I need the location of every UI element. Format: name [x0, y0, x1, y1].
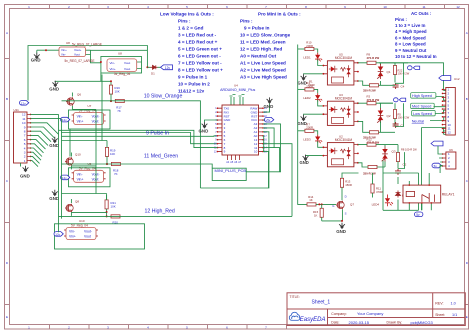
resistor R2 330-R 2W — [358, 81, 395, 92]
svg-text:9 = Pulse In: 9 = Pulse In — [244, 26, 270, 31]
wire U4 right pins to right section — [59, 124, 293, 216]
resistor R15 1K — [313, 204, 343, 222]
svg-text:6 = Med Speed: 6 = Med Speed — [395, 35, 426, 40]
svg-text:10K: 10K — [110, 152, 115, 156]
resistor R10 200R — [298, 41, 318, 53]
svg-text:1.0: 1.0 — [451, 302, 456, 306]
optocoupler U2 MOC3041M — [323, 135, 359, 167]
triac Q2 — [377, 108, 391, 123]
MCU U4 ARDUINO_MINI_Plus — [214, 84, 267, 174]
resistor R1 — [308, 80, 315, 88]
svg-text:Q7: Q7 — [350, 202, 354, 206]
diode D1 — [147, 65, 172, 75]
svg-text:Q8: Q8 — [75, 199, 79, 203]
svg-text:7K: 7K — [114, 172, 118, 176]
resistor R21 — [105, 195, 116, 217]
svg-text:1K: 1K — [314, 213, 318, 217]
svg-text:10K: 10K — [115, 89, 120, 93]
net flag near U6 — [432, 163, 443, 168]
ground under Q7 — [336, 223, 346, 234]
resistor R13 150R — [340, 178, 351, 200]
LED LED3 — [303, 135, 323, 148]
svg-text:150R: 150R — [345, 183, 352, 187]
ground MOC row3 — [300, 155, 324, 165]
svg-text:Vin-: Vin- — [61, 52, 66, 56]
ground MOC row1 — [298, 74, 324, 86]
svg-text:A: A — [6, 31, 8, 35]
ground GND row2 — [49, 137, 59, 148]
resistor R11 470R — [371, 173, 383, 198]
resistor R7 200R — [298, 122, 318, 134]
note text block: Pro Mini In & Outs — [240, 12, 301, 80]
resistor R9 470-R 2W — [358, 53, 393, 65]
svg-text:LED2: LED2 — [303, 96, 311, 100]
svg-text:Pins :: Pins : — [240, 19, 253, 24]
svg-text:LED1: LED1 — [303, 56, 311, 60]
svg-text:10 Slow_Orange: 10 Slow_Orange — [144, 94, 183, 100]
svg-text:10 = Pulse In 2: 10 = Pulse In 2 — [178, 82, 210, 87]
svg-text:C4: C4 — [401, 85, 405, 89]
svg-text:TITLE:: TITLE: — [290, 295, 300, 299]
svg-text:5v_REG_07_LARGE: 5v_REG_07_LARGE — [72, 43, 102, 47]
ground GND2 — [49, 81, 59, 92]
net port Low Speed — [412, 111, 436, 116]
svg-text:Vin-: Vin- — [110, 61, 115, 65]
capacitor C1 — [393, 122, 405, 128]
wire top loop A — [28, 46, 147, 101]
wire net 11 Med_Green — [62, 164, 213, 168]
svg-text:330-R 2W: 330-R 2W — [363, 88, 376, 92]
svg-text:1K: 1K — [309, 198, 313, 202]
svg-text:E: E — [466, 315, 468, 319]
connector U11 — [14, 108, 32, 163]
svg-text:High Speed: High Speed — [412, 94, 432, 98]
regulator U5 — [61, 162, 111, 187]
resistor R8 100-R 2W — [396, 145, 417, 169]
capacitor C2 — [395, 163, 407, 175]
svg-text:GND: GND — [31, 58, 41, 63]
svg-text:12 = LED High_Red: 12 = LED High_Red — [240, 47, 282, 52]
title block — [287, 293, 465, 326]
svg-text:12v: 12v — [165, 66, 171, 70]
svg-text:Pins :: Pins : — [395, 17, 407, 22]
net flag 12v above U11 — [20, 101, 29, 106]
wire right column to U12 — [393, 63, 446, 211]
svg-text:REV:: REV: — [435, 302, 443, 306]
regulator U8 — [59, 41, 102, 63]
svg-text:Low Voltage Ins & Outs :: Low Voltage Ins & Outs : — [160, 12, 214, 17]
svg-text:Pro Mini In & Outs :: Pro Mini In & Outs : — [258, 12, 301, 17]
svg-text:11 Med_Green: 11 Med_Green — [144, 153, 178, 159]
svg-text:ARDUINO_MINI_Plus: ARDUINO_MINI_Plus — [220, 88, 255, 92]
svg-text:6 = LED Green out -: 6 = LED Green out - — [178, 54, 221, 59]
svg-text:MINI_PLUS_PCB: MINI_PLUS_PCB — [215, 168, 247, 173]
relay RELAY1 — [403, 184, 455, 203]
LED LED1 — [303, 53, 323, 66]
svg-text:GND: GND — [336, 229, 346, 234]
svg-text:9 Pulse In: 9 Pulse In — [146, 130, 169, 136]
svg-text:Company:: Company: — [331, 312, 347, 316]
resistor R5 100-R 2W — [393, 103, 409, 126]
svg-text:3 = LED Red out -: 3 = LED Red out - — [178, 33, 217, 38]
optocoupler U3b MOC3041M — [323, 93, 359, 126]
svg-text:Your Company: Your Company — [357, 311, 383, 316]
svg-text:10 to 12 = Neutral In: 10 to 12 = Neutral In — [395, 54, 437, 59]
svg-text:GND: GND — [49, 196, 59, 201]
svg-text:S: S — [345, 211, 347, 215]
ground MOC row2 — [298, 114, 324, 126]
svg-text:GND: GND — [199, 129, 209, 134]
net port Med Speed — [411, 103, 435, 108]
wire U6 links — [438, 146, 443, 173]
ground below U11 — [20, 163, 30, 179]
svg-text:pcbjMMCG3: pcbjMMCG3 — [411, 320, 434, 325]
svg-text:10K: 10K — [111, 204, 116, 208]
wire box around MINI_PLUS_PCB — [212, 168, 246, 180]
svg-text:B: B — [466, 97, 468, 101]
svg-text:Q1: Q1 — [387, 70, 391, 74]
svg-text:12v: 12v — [21, 101, 26, 105]
connector U6 — [442, 148, 456, 169]
svg-text:12v: 12v — [62, 118, 67, 122]
transistor Q10 — [65, 153, 81, 170]
svg-text:MOC3041M: MOC3041M — [335, 56, 353, 60]
triac Q1 — [377, 64, 391, 79]
wire loop B around U3 — [55, 50, 148, 85]
regulator U7 — [61, 104, 111, 129]
wire net 10 Slow_Orange — [62, 101, 201, 188]
svg-text:1: 1 — [24, 159, 26, 163]
svg-text:+5v: +5v — [265, 118, 270, 122]
svg-text:Vout: Vout — [74, 52, 80, 56]
resistor R4 200R — [298, 81, 318, 93]
LED LED4 — [372, 195, 393, 207]
note text block: Low Voltage Ins & Outs — [160, 12, 223, 94]
side ticks — [5, 59, 10, 305]
svg-text:Pins :: Pins : — [178, 19, 191, 24]
svg-text:1 & 2 = Gnd: 1 & 2 = Gnd — [178, 26, 204, 31]
resistor R3 470-R 2W — [358, 95, 393, 109]
regulator U10 — [54, 219, 145, 249]
wire fan from U11 — [31, 114, 62, 166]
svg-text:12 High_Red: 12 High_Red — [145, 209, 175, 215]
wire relay area loop — [342, 161, 431, 211]
ground left of U4 — [199, 120, 218, 134]
regulator U3 — [107, 52, 137, 76]
svg-text:4 = LED Red out +: 4 = LED Red out + — [178, 40, 218, 45]
svg-text:12: 12 — [448, 131, 452, 135]
svg-text:Sheet_1: Sheet_1 — [312, 299, 331, 305]
svg-text:470R: 470R — [376, 190, 383, 194]
svg-text:12v: 12v — [62, 176, 67, 180]
svg-text:Q6: Q6 — [77, 92, 81, 96]
svg-text:MOC3041M: MOC3041M — [335, 138, 353, 142]
svg-text:B: B — [6, 97, 8, 101]
svg-text:8 = LED Yellow out +: 8 = LED Yellow out + — [178, 68, 223, 73]
capacitor C4 — [393, 83, 405, 89]
svg-text:Date:: Date: — [331, 321, 339, 325]
svg-text:7K: 7K — [117, 109, 121, 113]
EasyEDA logo — [289, 312, 325, 323]
svg-text:5v_REG_07_LARGE: 5v_REG_07_LARGE — [65, 59, 95, 63]
svg-text:11 = LED Med_Green: 11 = LED Med_Green — [240, 40, 286, 45]
svg-text:5V_Reg_04: 5V_Reg_04 — [79, 167, 96, 171]
resistor R17 — [110, 94, 124, 113]
svg-text:U8: U8 — [66, 41, 70, 45]
svg-text:EasyEDA: EasyEDA — [300, 317, 326, 323]
transistor Q7 — [332, 194, 354, 221]
transistor Q8 — [62, 194, 107, 216]
svg-text:RELAY1: RELAY1 — [442, 192, 455, 196]
svg-text:9 = Pulse In 1: 9 = Pulse In 1 — [178, 75, 208, 80]
transistor Q9 — [66, 92, 81, 109]
svg-text:U11: U11 — [14, 108, 20, 112]
net flag pentagon mid right — [431, 141, 443, 146]
svg-text:5v_Reg_04: 5v_Reg_04 — [114, 72, 131, 76]
svg-text:AC Outs :: AC Outs : — [411, 11, 432, 16]
svg-text:1 to 3 = Live In: 1 to 3 = Live In — [395, 23, 426, 28]
svg-text:470-R 2W: 470-R 2W — [367, 56, 380, 60]
net flag 5v below relay — [415, 212, 423, 217]
svg-text:U10: U10 — [79, 219, 85, 223]
LED LED2 — [303, 93, 323, 106]
svg-text:Vout: Vout — [124, 67, 130, 71]
resistor R22 100-R 2W — [393, 63, 409, 83]
svg-text:R8 100-R 2W: R8 100-R 2W — [401, 147, 417, 151]
svg-text:Sheet:: Sheet: — [435, 313, 445, 317]
svg-text:LED4: LED4 — [372, 202, 380, 206]
resistor R14 1K — [307, 195, 336, 206]
bottom ticks — [50, 325, 287, 329]
wire net 12 High_Red — [59, 215, 293, 217]
resistor R24 330-R 2W — [358, 162, 385, 176]
net flag 12v near D1 — [161, 65, 173, 70]
svg-text:D: D — [345, 194, 347, 198]
triac Q3 — [382, 147, 396, 162]
svg-text:GND: GND — [20, 174, 30, 179]
svg-text:Q2: Q2 — [387, 114, 391, 118]
svg-text:10: 10 — [254, 150, 258, 154]
top ticks — [50, 5, 445, 9]
svg-text:U7: U7 — [88, 104, 92, 108]
resistor R18 — [106, 162, 121, 176]
svg-text:1/1: 1/1 — [452, 313, 457, 317]
svg-text:GND: GND — [264, 104, 274, 109]
svg-text:U8: U8 — [118, 52, 122, 56]
diode D2 — [396, 191, 407, 198]
svg-text:U4: U4 — [234, 84, 238, 88]
svg-text:C1: C1 — [401, 124, 405, 128]
note text block: AC Outs — [395, 11, 437, 59]
svg-text:Q10: Q10 — [75, 153, 81, 157]
svg-text:5 = LED Green out +: 5 = LED Green out + — [178, 47, 222, 52]
svg-text:10 = LED Slow_Orange: 10 = LED Slow_Orange — [240, 33, 291, 38]
svg-text:8 = Low Speed: 8 = Low Speed — [395, 42, 426, 47]
net flag above U12 — [439, 76, 451, 81]
wire left buses — [59, 75, 107, 233]
wire net 9 Pulse In — [62, 133, 218, 144]
resistor R16 — [109, 85, 120, 94]
resistor R12 470-R 2W — [358, 137, 398, 146]
ground GND1 — [31, 53, 41, 63]
svg-text:9 = Neutral Out: 9 = Neutral Out — [395, 48, 427, 53]
svg-text:Med Speed: Med Speed — [412, 105, 431, 109]
svg-text:E: E — [6, 315, 8, 319]
net port row1 — [379, 63, 420, 70]
resistor R20 — [111, 215, 120, 225]
svg-text:5v: 5v — [416, 213, 420, 217]
svg-text:GND: GND — [49, 86, 59, 91]
svg-text:11: 11 — [422, 5, 425, 9]
svg-text:A3 = Live High Speed: A3 = Live High Speed — [240, 75, 287, 80]
svg-text:U12: U12 — [454, 77, 460, 81]
net flag +5v — [263, 117, 274, 122]
svg-text:7 = LED Yellow out -: 7 = LED Yellow out - — [178, 61, 222, 66]
svg-text:A1 = Live Low Speed: A1 = Live Low Speed — [240, 61, 286, 66]
svg-text:Low Speed: Low Speed — [413, 112, 432, 116]
net port High Speed — [411, 93, 436, 98]
svg-text:2020-03-15: 2020-03-15 — [349, 320, 370, 325]
wire 12v rail right — [298, 45, 307, 205]
net label Neutral — [412, 119, 424, 123]
optocoupler U5 MOC3041M — [323, 52, 359, 85]
net port row2 — [379, 98, 406, 103]
svg-text:10: 10 — [383, 5, 387, 9]
svg-text:D1: D1 — [151, 71, 155, 75]
svg-text:GND: GND — [49, 143, 59, 148]
junction dots — [45, 49, 148, 82]
svg-text:Vout: Vout — [124, 61, 130, 65]
ground GND row3 — [49, 190, 59, 201]
svg-text:GND: GND — [300, 160, 309, 165]
svg-text:12: 12 — [456, 5, 460, 9]
svg-text:12v: 12v — [55, 232, 60, 236]
svg-text:4 = High Speed: 4 = High Speed — [395, 29, 427, 34]
svg-text:A0 = Neutral Out: A0 = Neutral Out — [240, 54, 277, 59]
svg-text:A2 = Live Med Speed: A2 = Live Med Speed — [240, 68, 286, 73]
svg-text:Neutral: Neutral — [412, 119, 424, 123]
resistor R19 — [62, 141, 116, 165]
svg-text:330-R 2W: 330-R 2W — [363, 171, 376, 175]
svg-text:A: A — [466, 31, 468, 35]
svg-text:Drawn By:: Drawn By: — [387, 321, 403, 325]
svg-text:Q3: Q3 — [392, 150, 396, 154]
resistor R6 330-R 2W — [358, 121, 395, 139]
svg-text:LED3: LED3 — [303, 137, 311, 141]
svg-text:5v: 5v — [434, 164, 438, 168]
connector U12 — [442, 77, 460, 135]
svg-text:Vin+: Vin+ — [110, 67, 116, 71]
ground right of U4 — [263, 97, 273, 112]
svg-text:MOC3041M: MOC3041M — [335, 96, 353, 100]
